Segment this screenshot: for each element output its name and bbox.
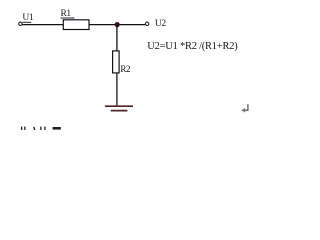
paragraph return mark (243, 104, 248, 110)
formula text (147, 42, 237, 52)
wire junction down to R2 (116, 25, 118, 51)
resistor R2 (113, 51, 120, 73)
resistor R1 (63, 20, 89, 30)
ground bar short (111, 110, 128, 112)
terminal circle U2 (145, 22, 148, 25)
wire from U1 terminal to R1 (22, 24, 63, 26)
label U1 underline (22, 21, 31, 23)
cut-off text tops bottom-left (21, 127, 61, 130)
junction node dot (115, 22, 120, 27)
wire R2 down to ground (116, 73, 118, 106)
ground bar long (105, 105, 133, 107)
label R1 underline (61, 17, 75, 19)
terminal circle U1 (19, 22, 22, 25)
label U2 (155, 20, 166, 30)
wire from R1 to U2 terminal (89, 24, 145, 26)
label R2 (120, 65, 130, 75)
label R1 (61, 10, 71, 20)
label U1 (22, 14, 33, 24)
